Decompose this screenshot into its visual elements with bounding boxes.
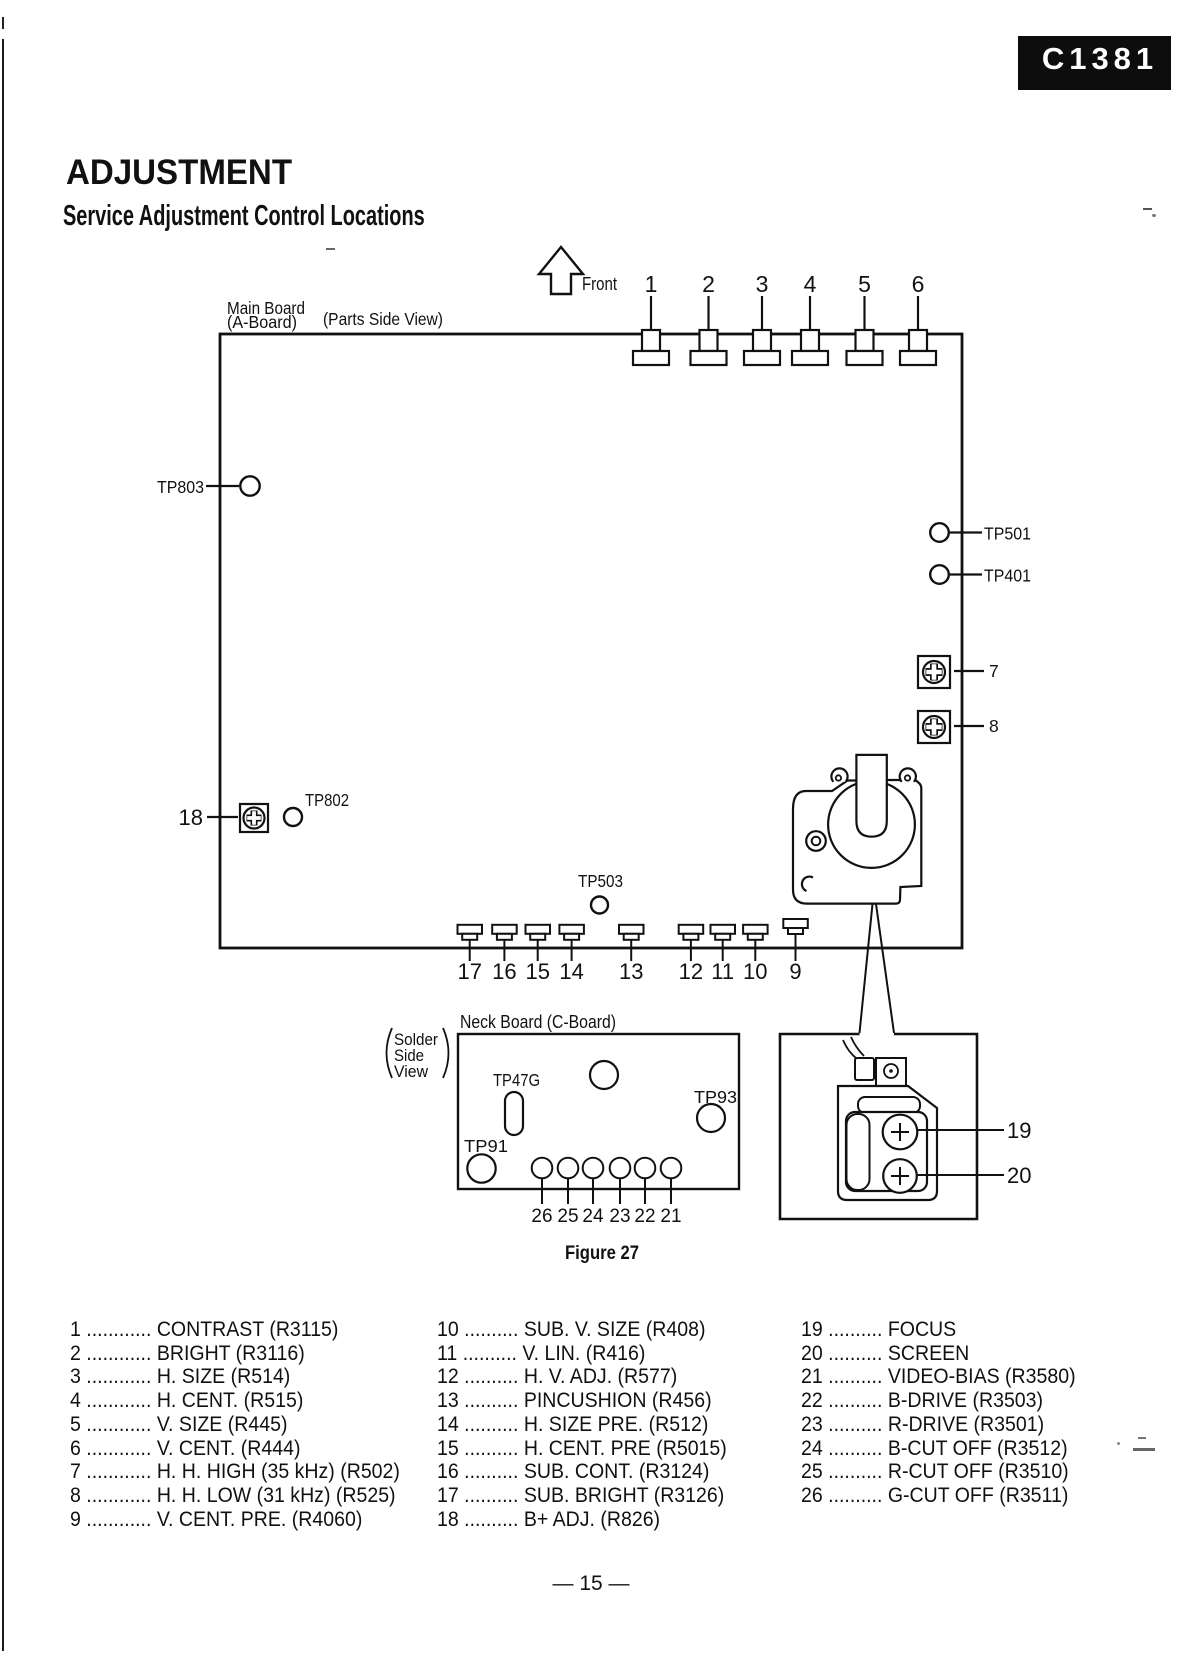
- svg-text:18: 18: [179, 805, 203, 830]
- anode lead connector: [855, 1058, 874, 1080]
- cutoff control 26: [532, 1158, 553, 1179]
- svg-text:Front: Front: [582, 274, 617, 294]
- test point TP93: [697, 1104, 725, 1132]
- scan edge line: [2, 17, 4, 29]
- svg-text:TP802: TP802: [305, 790, 349, 810]
- heading ADJUSTMENT: [66, 153, 292, 193]
- model tag C1381: [1018, 36, 1171, 90]
- control 6: [917, 296, 919, 331]
- control 11: [711, 925, 736, 934]
- wedge line right to detail: [876, 904, 894, 1033]
- svg-text:26: 26: [531, 1206, 552, 1227]
- svg-text:22: 22: [634, 1206, 655, 1227]
- svg-text:13: 13: [619, 959, 643, 984]
- paren left: [387, 1028, 393, 1078]
- svg-text:16: 16: [492, 959, 516, 984]
- svg-text:TP91: TP91: [464, 1136, 508, 1156]
- page number: [491, 1572, 691, 1596]
- svg-text:15: 15: [525, 959, 549, 984]
- svg-text:2: 2: [702, 271, 715, 297]
- control 13: [619, 925, 644, 934]
- detail inset box: [780, 1034, 977, 1219]
- neck board top hole: [590, 1061, 618, 1089]
- svg-text:17: 17: [457, 959, 481, 984]
- focus control 19: [883, 1115, 918, 1150]
- control 10: [743, 925, 768, 934]
- fbt detail side pad: [847, 1114, 870, 1190]
- svg-text:20: 20: [1007, 1163, 1031, 1188]
- control 18 screw: [240, 804, 268, 832]
- svg-text:TP803: TP803: [157, 477, 204, 497]
- svg-text:19: 19: [1007, 1118, 1031, 1143]
- flyback mounting ear left: [831, 768, 847, 781]
- svg-text:TP501: TP501: [984, 524, 1031, 544]
- control 17: [458, 925, 483, 934]
- svg-text:11: 11: [711, 959, 734, 984]
- anode lead wires: [843, 1040, 857, 1059]
- svg-text:Neck Board (C-Board): Neck Board (C-Board): [460, 1012, 616, 1032]
- subheading: [63, 200, 425, 233]
- svg-text:Figure 27: Figure 27: [565, 1242, 639, 1264]
- flyback anode cap: [856, 755, 886, 837]
- svg-text:TP401: TP401: [984, 566, 1031, 586]
- svg-text:24: 24: [582, 1206, 604, 1227]
- flyback chin arc: [802, 877, 813, 891]
- flyback mounting ear right: [900, 768, 916, 781]
- fbt detail inner frame: [846, 1112, 927, 1191]
- control 12: [679, 925, 704, 934]
- svg-text:(A-Board): (A-Board): [227, 312, 297, 332]
- control 15: [526, 925, 551, 934]
- svg-text:12: 12: [679, 959, 703, 984]
- test point TP91: [467, 1154, 495, 1182]
- flyback coil circle: [828, 781, 915, 868]
- cutoff control 22: [635, 1158, 656, 1179]
- test point TP401: [930, 565, 949, 584]
- control 14: [559, 925, 584, 934]
- wedge line left to detail: [860, 904, 873, 1033]
- svg-text:View: View: [394, 1063, 428, 1081]
- control 5: [863, 296, 865, 331]
- control 8 screw: [918, 711, 950, 743]
- paren right: [443, 1028, 449, 1078]
- svg-text:1: 1: [645, 271, 658, 297]
- control 7 screw: [918, 656, 950, 688]
- svg-text:6: 6: [912, 271, 925, 297]
- fbt detail collar bar: [858, 1097, 920, 1113]
- control 3: [761, 296, 763, 331]
- svg-text:3: 3: [756, 271, 769, 297]
- svg-text:23: 23: [609, 1206, 630, 1227]
- svg-text:10: 10: [743, 959, 767, 984]
- control 1: [650, 296, 652, 331]
- neck board outline: [458, 1034, 739, 1189]
- test point TP501: [930, 523, 949, 542]
- mounting bracket: [876, 1058, 906, 1098]
- svg-text:14: 14: [559, 959, 583, 984]
- cutoff control 25: [558, 1158, 579, 1179]
- flyback transformer body: [793, 755, 921, 904]
- svg-text:25: 25: [557, 1206, 578, 1227]
- cutoff control 24: [583, 1158, 604, 1179]
- fbt detail body: [838, 1086, 937, 1200]
- svg-text:9: 9: [789, 959, 801, 984]
- control 4: [809, 296, 811, 331]
- cutoff control 21: [661, 1158, 682, 1179]
- test point TP47G slot: [505, 1092, 523, 1135]
- flyback eyelet: [806, 831, 826, 851]
- svg-text:5: 5: [858, 271, 871, 297]
- control 9: [783, 919, 808, 928]
- svg-text:8: 8: [989, 716, 999, 736]
- svg-text:TP47G: TP47G: [493, 1070, 540, 1090]
- svg-text:4: 4: [804, 271, 817, 297]
- control 2: [707, 296, 709, 331]
- svg-text:TP503: TP503: [578, 871, 623, 891]
- svg-text:21: 21: [660, 1206, 681, 1227]
- cutoff control 23: [610, 1158, 631, 1179]
- controls 1-6 top edge: [633, 296, 936, 365]
- svg-text:7: 7: [989, 661, 999, 681]
- screen control 20: [883, 1159, 917, 1193]
- svg-text:(Parts Side View): (Parts Side View): [323, 309, 443, 329]
- main board outline: [220, 334, 962, 948]
- test point TP802: [284, 808, 302, 826]
- stray ink specks: [1143, 208, 1152, 210]
- front arrow: [539, 247, 583, 294]
- control 16: [492, 925, 517, 934]
